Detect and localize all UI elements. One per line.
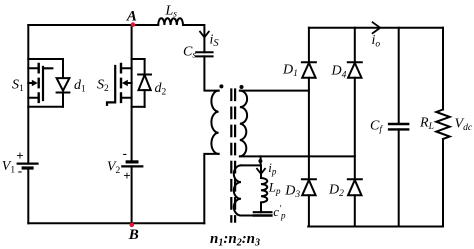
wire: S2 main branch (node A down to V2) bbox=[131, 25, 133, 162]
transformer tertiary winding n3 bbox=[234, 165, 241, 215]
svg-text:RL: RL bbox=[419, 116, 434, 133]
svg-text:V1: V1 bbox=[2, 159, 16, 176]
svg-text:d1: d1 bbox=[74, 78, 86, 95]
transformer secondary winding n2 bbox=[240, 91, 247, 157]
battery V1 bbox=[18, 163, 38, 165]
wire: Cs down then right to primary top bbox=[204, 56, 218, 90]
wire: RL leg lower bbox=[442, 139, 444, 227]
svg-text:-: - bbox=[18, 163, 22, 178]
capacitor c'_p lower plate on block bottom bbox=[254, 214, 272, 216]
wire: D1 to D3 (through node and crossing) bbox=[308, 78, 310, 180]
wire: rectifier top rail bbox=[309, 27, 443, 29]
wire: Lp to c'p bbox=[260, 202, 262, 212]
wire: V1 to bottom rail bbox=[27, 168, 29, 223]
svg-text:Ls: Ls bbox=[165, 4, 178, 20]
switch S1: parallel block top line bbox=[28, 58, 63, 60]
svg-text:-: - bbox=[123, 146, 127, 161]
wire: top-left rail from S1 branch to Ls bbox=[28, 24, 158, 26]
transformer core (two dashed lines) bbox=[231, 90, 235, 222]
svg-text:Cf: Cf bbox=[370, 119, 383, 136]
svg-text:n1:n2:n3: n1:n2:n3 bbox=[210, 231, 260, 249]
capacitor C_s bbox=[196, 52, 212, 56]
switch S1: parallel block bottom line bbox=[28, 106, 63, 108]
tertiary block top line bbox=[241, 164, 261, 166]
wire: bottom-left rail bbox=[28, 222, 204, 224]
svg-text:ip: ip bbox=[268, 160, 277, 177]
wire: rectifier bottom rail bbox=[308, 226, 443, 228]
diode d1 bbox=[62, 59, 64, 78]
svg-text:Cs: Cs bbox=[183, 44, 196, 60]
capacitor C_f bbox=[389, 124, 408, 129]
current arrow i_o (open chevron, right) bbox=[373, 22, 381, 33]
current arrow i_S (open chevron, down) bbox=[200, 32, 209, 38]
wire: primary bottom left then down to bottom rail bbox=[204, 154, 218, 223]
capacitor c'_p bbox=[254, 211, 272, 213]
svg-text:S2: S2 bbox=[97, 78, 109, 95]
wire: Cf branch upper bbox=[398, 28, 400, 124]
svg-text:iS: iS bbox=[210, 33, 220, 50]
svg-text:S1: S1 bbox=[12, 78, 24, 95]
MOSFET S1 drain/source leads bbox=[28, 68, 37, 98]
svg-text:A: A bbox=[126, 9, 137, 25]
svg-text:io: io bbox=[372, 33, 381, 50]
dot: secondary polarity bbox=[240, 85, 244, 89]
inductor L_p bbox=[261, 178, 267, 202]
svg-text:D3: D3 bbox=[284, 183, 300, 200]
MOSFET S2 body arrow (points left) bbox=[127, 82, 131, 84]
node B (red junction dot) bbox=[130, 223, 135, 228]
wire: Lp branch top with i_p arrow shaft bbox=[260, 165, 262, 178]
svg-text:V2: V2 bbox=[107, 160, 121, 177]
svg-text:c′p: c′p bbox=[273, 204, 286, 221]
MOSFET S2 drain/source leads bbox=[122, 68, 132, 98]
diode D4 bbox=[348, 61, 362, 63]
wire: S1 main branch (top rail to V1) bbox=[27, 25, 29, 164]
inductor L_s bbox=[158, 18, 183, 25]
wire: secondary bottom to D2/D4 leg bbox=[240, 155, 355, 157]
wire: secondary top to D1/D3 leg bbox=[240, 90, 309, 92]
svg-text:Vdc: Vdc bbox=[455, 117, 473, 134]
wire: D3 to bottom rail bbox=[308, 195, 310, 226]
svg-text:D2: D2 bbox=[328, 182, 344, 199]
wire: connector from secondary-bottom net down to n3 block bbox=[260, 156, 262, 165]
MOSFET S1 channel segments bbox=[38, 64, 40, 102]
diode d2 bbox=[144, 59, 146, 75]
svg-text:Lp: Lp bbox=[268, 180, 281, 197]
switch S2: parallel block bottom line bbox=[132, 106, 145, 108]
wire: V2 to node B bbox=[131, 166, 133, 223]
MOSFET S2 channel segments bbox=[120, 64, 122, 102]
wire: RL leg upper bbox=[442, 28, 444, 110]
wire: Cf branch lower bbox=[398, 129, 400, 226]
svg-text:+: + bbox=[16, 148, 23, 163]
svg-text:+: + bbox=[123, 168, 130, 183]
node A (red junction dot) bbox=[131, 22, 136, 27]
diode D1 bbox=[302, 61, 316, 63]
resistor R_L zigzag bbox=[436, 110, 449, 140]
svg-text:D1: D1 bbox=[282, 63, 298, 80]
MOSFET S1 body arrow (points right) bbox=[28, 82, 32, 84]
wire: D4 to D2 bbox=[354, 78, 356, 180]
dot: tertiary polarity bbox=[258, 159, 262, 163]
battery V2 bbox=[127, 160, 137, 163]
wire: D2 to bottom rail bbox=[354, 195, 356, 226]
wire: rail from Ls to corner, down to Cs bbox=[183, 25, 204, 52]
diode D3 bbox=[302, 178, 316, 180]
svg-text:d2: d2 bbox=[155, 81, 167, 98]
svg-text:D4: D4 bbox=[331, 64, 347, 81]
dot: primary polarity bbox=[219, 84, 223, 88]
wire: D2/D4 leg upper bbox=[354, 28, 356, 63]
transformer primary winding n1 bbox=[211, 91, 218, 154]
diode D2 bbox=[348, 178, 362, 180]
current arrow i_p (open chevron, down) bbox=[257, 169, 265, 174]
wire: D1/D3 leg upper bbox=[308, 28, 310, 63]
tertiary block bottom line bbox=[241, 215, 254, 217]
switch S2: parallel block top line bbox=[132, 58, 145, 60]
svg-text:B: B bbox=[128, 227, 139, 243]
MOSFET S2 gate bar and gate lead bbox=[107, 66, 115, 105]
MOSFET S1 gate bar and gate lead bbox=[43, 67, 52, 100]
